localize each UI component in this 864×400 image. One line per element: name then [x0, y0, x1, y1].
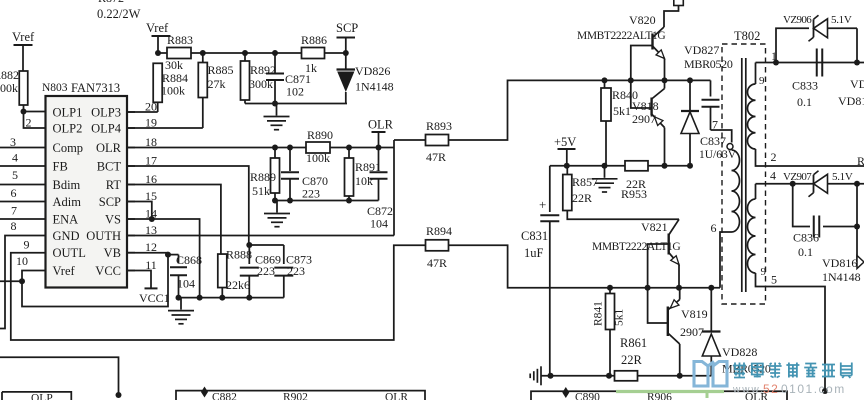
- svg-text:4: 4: [12, 151, 18, 165]
- svg-text:102: 102: [286, 85, 304, 99]
- svg-text:VZ906: VZ906: [783, 14, 812, 26]
- svg-text:5k1: 5k1: [613, 104, 631, 118]
- svg-text:4: 4: [770, 169, 776, 183]
- svg-text:RT: RT: [106, 178, 122, 192]
- svg-text:V818: V818: [632, 99, 659, 113]
- svg-text:9: 9: [761, 266, 767, 278]
- svg-text:VD816: VD816: [822, 256, 857, 270]
- svg-text:Bdim: Bdim: [53, 178, 81, 192]
- svg-text:OLR: OLR: [368, 118, 394, 132]
- svg-text:0.22/2W: 0.22/2W: [97, 7, 141, 21]
- svg-text:VD81: VD81: [838, 94, 864, 108]
- svg-text:VD8: VD8: [850, 77, 864, 91]
- svg-text:BCT: BCT: [97, 160, 122, 174]
- svg-text:R953: R953: [621, 187, 647, 201]
- svg-text:47R: 47R: [427, 256, 447, 270]
- svg-text:5: 5: [771, 273, 777, 287]
- svg-text:C833: C833: [792, 79, 818, 93]
- svg-text:5.1V: 5.1V: [832, 171, 853, 183]
- svg-text:10k: 10k: [355, 174, 373, 188]
- svg-text:6: 6: [11, 186, 17, 200]
- svg-text:8: 8: [11, 219, 17, 233]
- svg-text:1N4148: 1N4148: [822, 270, 861, 284]
- svg-text:10: 10: [16, 254, 28, 268]
- svg-text:Vref: Vref: [146, 21, 169, 35]
- svg-text:OLP3: OLP3: [91, 106, 121, 120]
- svg-text:SCP: SCP: [336, 21, 358, 35]
- svg-text:7: 7: [11, 204, 17, 218]
- svg-text:OLP2: OLP2: [53, 122, 83, 136]
- svg-text:VZ907: VZ907: [783, 171, 812, 183]
- svg-text:R882: R882: [0, 68, 19, 82]
- svg-text:0.1: 0.1: [798, 245, 813, 259]
- svg-text:R894: R894: [426, 224, 452, 238]
- svg-text:C831: C831: [521, 229, 548, 243]
- svg-text:7: 7: [712, 118, 718, 132]
- svg-text:T802: T802: [734, 29, 760, 43]
- svg-text:R861: R861: [620, 336, 647, 350]
- svg-text:OUTL: OUTL: [53, 246, 86, 260]
- svg-text:MMBT2222ALT1G: MMBT2222ALT1G: [592, 241, 680, 253]
- svg-text:100k: 100k: [161, 84, 185, 98]
- svg-text:9: 9: [759, 75, 765, 87]
- svg-text:C882: C882: [212, 392, 237, 400]
- svg-text:OLP1: OLP1: [53, 106, 83, 120]
- svg-text:R883: R883: [167, 33, 193, 47]
- svg-text:R9: R9: [857, 154, 864, 168]
- svg-text:104: 104: [177, 277, 195, 291]
- svg-text:OLP4: OLP4: [91, 122, 122, 136]
- svg-text:Adim: Adim: [53, 195, 82, 209]
- svg-text:V820: V820: [629, 13, 656, 27]
- svg-text:OLR: OLR: [385, 392, 408, 400]
- svg-text:FAN7313: FAN7313: [71, 81, 120, 95]
- svg-text:22k6: 22k6: [226, 278, 250, 292]
- svg-text:22R: 22R: [621, 353, 643, 367]
- svg-text:5k1: 5k1: [614, 309, 626, 327]
- svg-text:2: 2: [771, 150, 777, 164]
- svg-text:C868: C868: [176, 253, 202, 267]
- svg-text:47R: 47R: [426, 150, 446, 164]
- svg-text:C890: C890: [575, 392, 600, 400]
- svg-text:R888: R888: [226, 248, 252, 262]
- svg-text:N803: N803: [42, 82, 68, 94]
- svg-text:Vref: Vref: [53, 264, 76, 278]
- svg-text:VCC1: VCC1: [139, 291, 170, 305]
- svg-text:223: 223: [257, 264, 275, 278]
- svg-text:5.1V: 5.1V: [831, 14, 852, 26]
- svg-text:R872: R872: [98, 0, 124, 5]
- svg-text:OLR: OLR: [96, 141, 122, 155]
- svg-text:SCP: SCP: [99, 195, 121, 209]
- svg-text:0101.com: 0101.com: [781, 382, 846, 396]
- svg-text:223: 223: [287, 264, 305, 278]
- svg-text:R886: R886: [301, 33, 327, 47]
- svg-text:100k: 100k: [0, 81, 18, 95]
- svg-text:R890: R890: [307, 128, 333, 142]
- svg-text:Vref: Vref: [12, 30, 35, 44]
- svg-text:52: 52: [763, 382, 779, 396]
- svg-text:+5V: +5V: [554, 135, 576, 149]
- svg-text:R893: R893: [426, 119, 452, 133]
- svg-text:V821: V821: [641, 220, 668, 234]
- svg-text:OUTH: OUTH: [86, 229, 121, 243]
- svg-text:VCC: VCC: [95, 264, 121, 278]
- svg-text:30k: 30k: [165, 58, 183, 72]
- svg-text:1N4148: 1N4148: [355, 80, 394, 94]
- svg-text:6: 6: [711, 221, 717, 235]
- svg-text:100k: 100k: [306, 151, 330, 165]
- svg-text:R857: R857: [572, 175, 598, 189]
- svg-text:9: 9: [24, 238, 30, 252]
- svg-text:5: 5: [12, 168, 18, 182]
- svg-text:R841: R841: [593, 301, 605, 326]
- svg-text:22R: 22R: [572, 191, 592, 205]
- svg-text:MBR0520: MBR0520: [684, 57, 733, 71]
- svg-text:Comp: Comp: [53, 141, 84, 155]
- svg-text:1uF: 1uF: [524, 246, 544, 260]
- svg-text:OLP: OLP: [31, 393, 53, 400]
- svg-text:104: 104: [370, 217, 388, 231]
- svg-text:FB: FB: [53, 160, 68, 174]
- svg-text:223: 223: [302, 187, 320, 201]
- svg-text:VB: VB: [104, 246, 121, 260]
- svg-text:R892: R892: [250, 63, 276, 77]
- svg-text:2907: 2907: [680, 325, 704, 339]
- svg-text:ENA: ENA: [53, 213, 79, 227]
- svg-text:GND: GND: [53, 229, 80, 243]
- svg-text:51k: 51k: [252, 184, 270, 198]
- svg-text:www.: www.: [732, 385, 765, 396]
- svg-text:VS: VS: [105, 213, 121, 227]
- svg-text:+: +: [539, 197, 546, 212]
- svg-text:VD826: VD826: [355, 64, 390, 78]
- svg-text:0.1: 0.1: [797, 95, 812, 109]
- svg-text:R902: R902: [283, 392, 308, 400]
- svg-text:VD828: VD828: [722, 345, 757, 359]
- svg-text:27k: 27k: [208, 77, 226, 91]
- svg-text:V819: V819: [681, 307, 708, 321]
- svg-text:1U/63V: 1U/63V: [699, 149, 737, 161]
- svg-text:VD827: VD827: [684, 43, 719, 57]
- svg-text:C836: C836: [793, 231, 819, 245]
- svg-text:R885: R885: [208, 63, 234, 77]
- svg-text:R889: R889: [250, 170, 276, 184]
